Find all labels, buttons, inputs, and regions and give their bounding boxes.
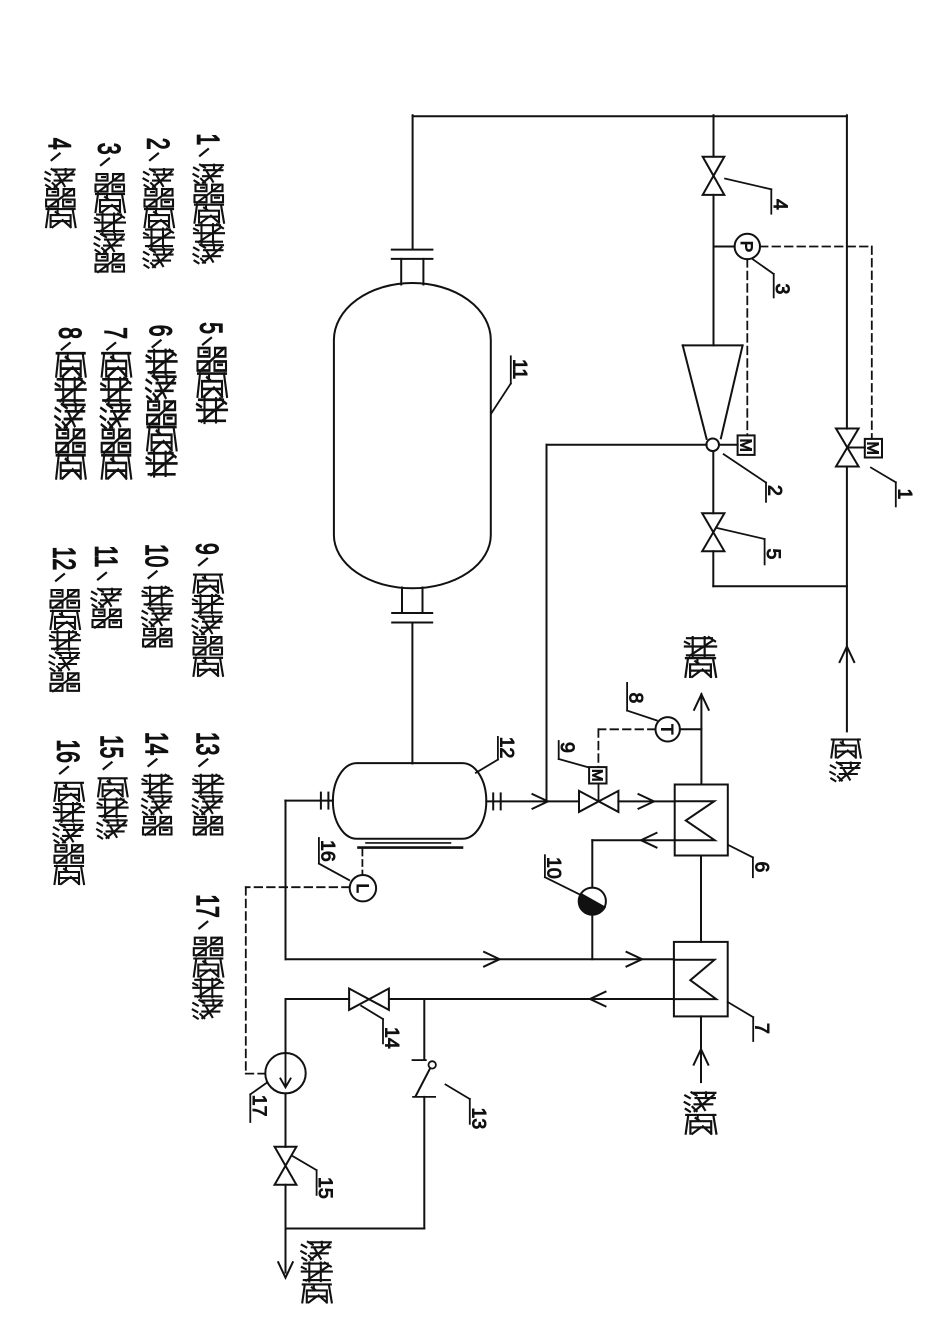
svg-text:15: 15 — [94, 735, 129, 758]
svg-text:10: 10 — [542, 857, 564, 879]
pipe: top header from drying cylinder to steam-valve branch — [413, 115, 847, 117]
pipe: valve 5 down and over to steam main — [712, 551, 714, 586]
leader line for label 8 — [626, 683, 628, 711]
svg-text:13: 13 — [190, 732, 225, 755]
pipe: bottom return run to pump discharge line — [286, 1228, 425, 1230]
flange ticks at separator right nozzle — [492, 793, 494, 809]
steam trap 10 — [579, 888, 606, 915]
pipe: condensate header to heat exchanger 7 — [286, 958, 674, 960]
dashed signal: level sensor to pump, vertical drop — [245, 887, 247, 1073]
svg-text:16: 16 — [316, 840, 338, 862]
actuator M box of valve 1 — [865, 439, 882, 458]
connector valve 1 to its actuator M — [847, 447, 865, 449]
arrow on pipe valve 9 to heat exchanger 6 — [639, 794, 655, 809]
svg-text:4: 4 — [42, 138, 77, 150]
pipe: separator 12 right outlet to control valve 9 — [486, 800, 579, 802]
svg-text:7: 7 — [98, 327, 133, 339]
dashed tap: separator base to level sensor — [361, 850, 363, 875]
leader line for label 15 — [293, 1156, 317, 1170]
svg-text:17: 17 — [190, 894, 225, 917]
pipe: ejector outlet down to valve 5 — [712, 451, 714, 513]
pipe: down-leg into steam trap 10 — [591, 840, 593, 887]
arrow on condensate header (right) — [627, 952, 643, 967]
water-air heat exchanger 7 shell — [674, 942, 728, 1017]
svg-text:6: 6 — [143, 325, 178, 337]
check valve 13 flap — [416, 1069, 430, 1096]
leader line for label 10 — [544, 855, 546, 877]
actuator M box of ejector 2 — [738, 435, 755, 455]
level sensor 16 (L) — [350, 875, 376, 901]
condensate pump 17 — [265, 1053, 305, 1093]
dashed signal: T to valve-9 actuator — [598, 728, 655, 730]
svg-text:7: 7 — [751, 1023, 773, 1034]
svg-text:P: P — [737, 241, 756, 252]
pipe: valve 4 to ejector inlet cone — [713, 195, 715, 346]
isolating valve 15 — [275, 1147, 297, 1166]
temperature sensor 8 (T) — [656, 717, 680, 741]
separator 12 base plate lines — [366, 842, 451, 844]
pipe: hot air outlet duct above HX 6 — [700, 694, 702, 784]
arrow on condensate outlet — [278, 1262, 293, 1278]
steam-steam ejector 2 cone — [683, 344, 743, 346]
svg-text:8: 8 — [52, 327, 87, 339]
pipe: separator drain drop leg at left — [285, 801, 287, 960]
pipe: valve 15 to condensate outlet — [285, 1185, 287, 1273]
svg-text:5: 5 — [194, 322, 229, 334]
flow label: cold air (leng feng) — [685, 1092, 716, 1111]
leader line for label 6 — [728, 845, 753, 858]
flow label: condensate water (leng ning shui) — [301, 1242, 331, 1261]
svg-text:M: M — [864, 442, 881, 455]
connector T to hot-air duct — [680, 728, 702, 730]
arrow on condensate header (left) — [484, 952, 500, 967]
pipe: header drop to valve 4 — [713, 115, 715, 157]
pipe: pump 17 to valve 15 — [285, 1093, 287, 1147]
flow label: steam (zheng qi) — [831, 740, 861, 758]
heat exchanger 6 coil zigzag — [675, 801, 715, 840]
pressure transmitter 3 (P) — [735, 234, 760, 259]
leader line for label 4 — [725, 179, 771, 190]
arrow on cooling water return — [590, 992, 606, 1007]
pipe: cylinder 11 bottom to separator 12 — [411, 623, 413, 764]
svg-text:11: 11 — [508, 359, 530, 379]
svg-text:8: 8 — [625, 693, 647, 704]
svg-text:14: 14 — [139, 732, 174, 755]
svg-text:14: 14 — [381, 1027, 403, 1049]
leader line for label 1 — [871, 468, 896, 483]
isolating valve 14 — [349, 989, 369, 1010]
heat exchanger 7 coil zigzag — [674, 960, 716, 999]
svg-text:17: 17 — [248, 1095, 270, 1117]
motor control valve 9 — [579, 791, 599, 812]
svg-text:5: 5 — [762, 549, 784, 560]
svg-text:2: 2 — [764, 485, 786, 496]
arrow on steam inlet — [840, 647, 855, 663]
leader line for label 16 — [318, 838, 320, 864]
leader line for label 12 — [476, 760, 498, 773]
svg-text:3: 3 — [771, 284, 793, 295]
flange pair at cylinder 11 top nozzle — [392, 249, 433, 251]
arrow on pipe to valve 9 — [533, 794, 549, 809]
pipe: separator 12 left outlet nozzle — [285, 800, 333, 802]
svg-text:15: 15 — [314, 1177, 336, 1199]
svg-text:L: L — [353, 883, 372, 892]
steam-air heat exchanger 6 shell — [675, 785, 728, 856]
arrow on hot air outlet — [694, 694, 709, 710]
flow label: hot air (re feng) — [685, 637, 716, 657]
motor control valve 1 — [836, 429, 859, 448]
pipe: return-line corner down to pump 17 suction — [285, 999, 287, 1053]
svg-text:11: 11 — [89, 546, 124, 568]
pipe: cooling water return from HX7 through valve 14 — [389, 998, 674, 1000]
leader line for label 14 — [361, 1006, 383, 1019]
svg-text:12: 12 — [495, 737, 517, 759]
svg-text:13: 13 — [467, 1108, 489, 1130]
svg-text:1: 1 — [893, 489, 915, 500]
leader line for label 2 — [724, 454, 766, 482]
check valve 13 seat tick (bottom) — [413, 1096, 435, 1098]
svg-text:9: 9 — [556, 742, 578, 753]
svg-text:4: 4 — [769, 199, 791, 210]
flange pair at cylinder 11 bottom nozzle — [392, 612, 432, 614]
svg-text:2: 2 — [141, 138, 176, 150]
dashed signal: level sensor to pump, horizontal — [246, 886, 350, 888]
ejector 2 mixing nozzle circle — [706, 439, 719, 452]
svg-text:9: 9 — [190, 543, 225, 555]
svg-text:3: 3 — [92, 143, 127, 155]
leader line for label 3 — [753, 259, 774, 274]
svg-text:6: 6 — [750, 862, 772, 873]
dashed signal: P down to ejector actuator — [746, 259, 748, 435]
svg-text:M: M — [736, 439, 753, 452]
connector from ejector to actuator M — [719, 444, 738, 446]
svg-text:16: 16 — [51, 740, 86, 763]
leader line for label 13 — [446, 1085, 470, 1100]
pipe: valve 9 to heat exchanger 6 — [618, 800, 674, 802]
pipe: HX6 to HX7 interconnect duct — [700, 856, 702, 942]
arrow on HX6 condensate return — [641, 833, 657, 848]
flange ticks at separator left nozzle — [320, 793, 322, 809]
actuator M box of valve 9 — [589, 767, 606, 783]
pipe: steam main from header to valve 1 — [846, 115, 848, 428]
leader line for label 11 — [491, 384, 511, 414]
check valve 13 hinge circle — [429, 1061, 436, 1068]
svg-text:10: 10 — [139, 544, 174, 567]
leader line for label 9 — [558, 741, 560, 759]
pipe: drying cylinder 11 top nozzle riser — [412, 115, 414, 249]
pipe: check valve to bottom return run — [423, 1097, 425, 1229]
leader line for label 5 — [716, 528, 765, 539]
dashed signal: P to valve-1 actuator, horizontal — [760, 246, 872, 248]
pipe: ejector suction horizontal run — [547, 444, 707, 446]
isolating valve 4 — [703, 157, 725, 176]
svg-text:12: 12 — [47, 547, 82, 570]
dashed signal: into pump 17 — [246, 1073, 265, 1075]
dashed signal: vertical to valve-1 actuator — [871, 247, 873, 439]
pipe: valve 1 down to steam inlet stub — [846, 467, 848, 732]
leader line for label 7 — [728, 1002, 754, 1017]
drying cylinder 11 vessel body — [334, 283, 491, 588]
nozzle neck at cylinder 11 top — [400, 259, 402, 285]
pipe: ejector drain down-leg to separator pipe junction — [546, 445, 548, 802]
svg-text:M: M — [588, 769, 605, 782]
leader line for label 17 — [250, 1083, 266, 1094]
nozzle neck at cylinder 11 bottom — [401, 588, 403, 614]
isolating valve 5 — [702, 513, 724, 532]
stem from M box to valve 9 — [598, 784, 600, 802]
connector to pressure transmitter P — [714, 246, 735, 248]
arrow on cold air inlet — [694, 1049, 709, 1065]
steam-water separator 12 vessel body — [333, 763, 486, 839]
pipe: steam trap outlet down-leg — [591, 915, 593, 959]
pipe: HX6 condensate return to steam trap — [592, 839, 674, 841]
svg-text:T: T — [658, 724, 677, 734]
check valve 13 seat tick (top) — [413, 1059, 426, 1061]
pipe: cold air inlet duct below HX7 — [700, 1016, 702, 1082]
svg-text:1: 1 — [191, 134, 226, 146]
pipe: branch down to check valve 13 — [423, 999, 425, 1060]
